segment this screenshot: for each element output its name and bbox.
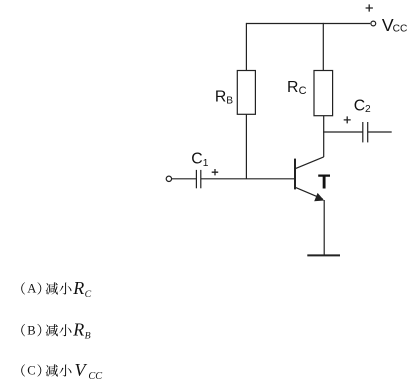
- svg-text:C: C: [27, 364, 35, 378]
- svg-text:B: B: [85, 331, 91, 342]
- option A text: [21, 282, 25, 294]
- option C text: [21, 364, 25, 376]
- wire RC branch top: [322, 23, 324, 71]
- svg-text:2: 2: [365, 104, 371, 115]
- plus sign at C2: [344, 116, 351, 123]
- transistor T emitter lead: [296, 188, 323, 199]
- plus sign at C1: [212, 169, 219, 175]
- wire input to C1: [172, 178, 197, 180]
- wire C2 output: [368, 131, 392, 133]
- svg-text:C: C: [85, 289, 92, 300]
- transistor T collector lead: [296, 157, 324, 169]
- wire RB bottom to base node: [245, 114, 247, 179]
- svg-text:CC: CC: [88, 371, 102, 382]
- svg-text:R: R: [72, 320, 84, 340]
- capacitor C2 plates: [362, 122, 364, 142]
- svg-text:R: R: [72, 278, 84, 298]
- terminal Vcc circle: [371, 21, 376, 26]
- svg-text:R: R: [287, 79, 298, 96]
- wire RC bottom to collector: [323, 116, 325, 158]
- svg-text:C: C: [191, 151, 202, 168]
- wire emitter down: [323, 200, 325, 255]
- svg-text:B: B: [226, 95, 233, 106]
- wire top supply rail: [246, 23, 370, 25]
- svg-text:R: R: [215, 88, 226, 105]
- resistor RB: [237, 71, 255, 115]
- svg-text:C: C: [299, 85, 307, 97]
- capacitor C1 plates: [195, 170, 197, 188]
- transistor T base bar: [294, 159, 296, 190]
- wire C1 to base: [201, 178, 295, 180]
- emitter arrowhead: [314, 193, 324, 201]
- svg-text:1: 1: [203, 158, 209, 169]
- svg-text:B: B: [27, 323, 35, 337]
- plus sign at Vcc: [366, 4, 373, 11]
- svg-text:V: V: [75, 360, 88, 380]
- wire RB branch top: [245, 23, 247, 71]
- svg-text:A: A: [27, 282, 36, 296]
- svg-text:T: T: [318, 171, 330, 193]
- resistor RC: [314, 71, 333, 116]
- ground bar: [307, 254, 340, 256]
- terminal input circle: [166, 176, 171, 181]
- svg-text:CC: CC: [393, 23, 408, 34]
- wire collector to C2: [323, 131, 363, 133]
- option B text: [21, 324, 25, 336]
- svg-text:C: C: [354, 97, 365, 114]
